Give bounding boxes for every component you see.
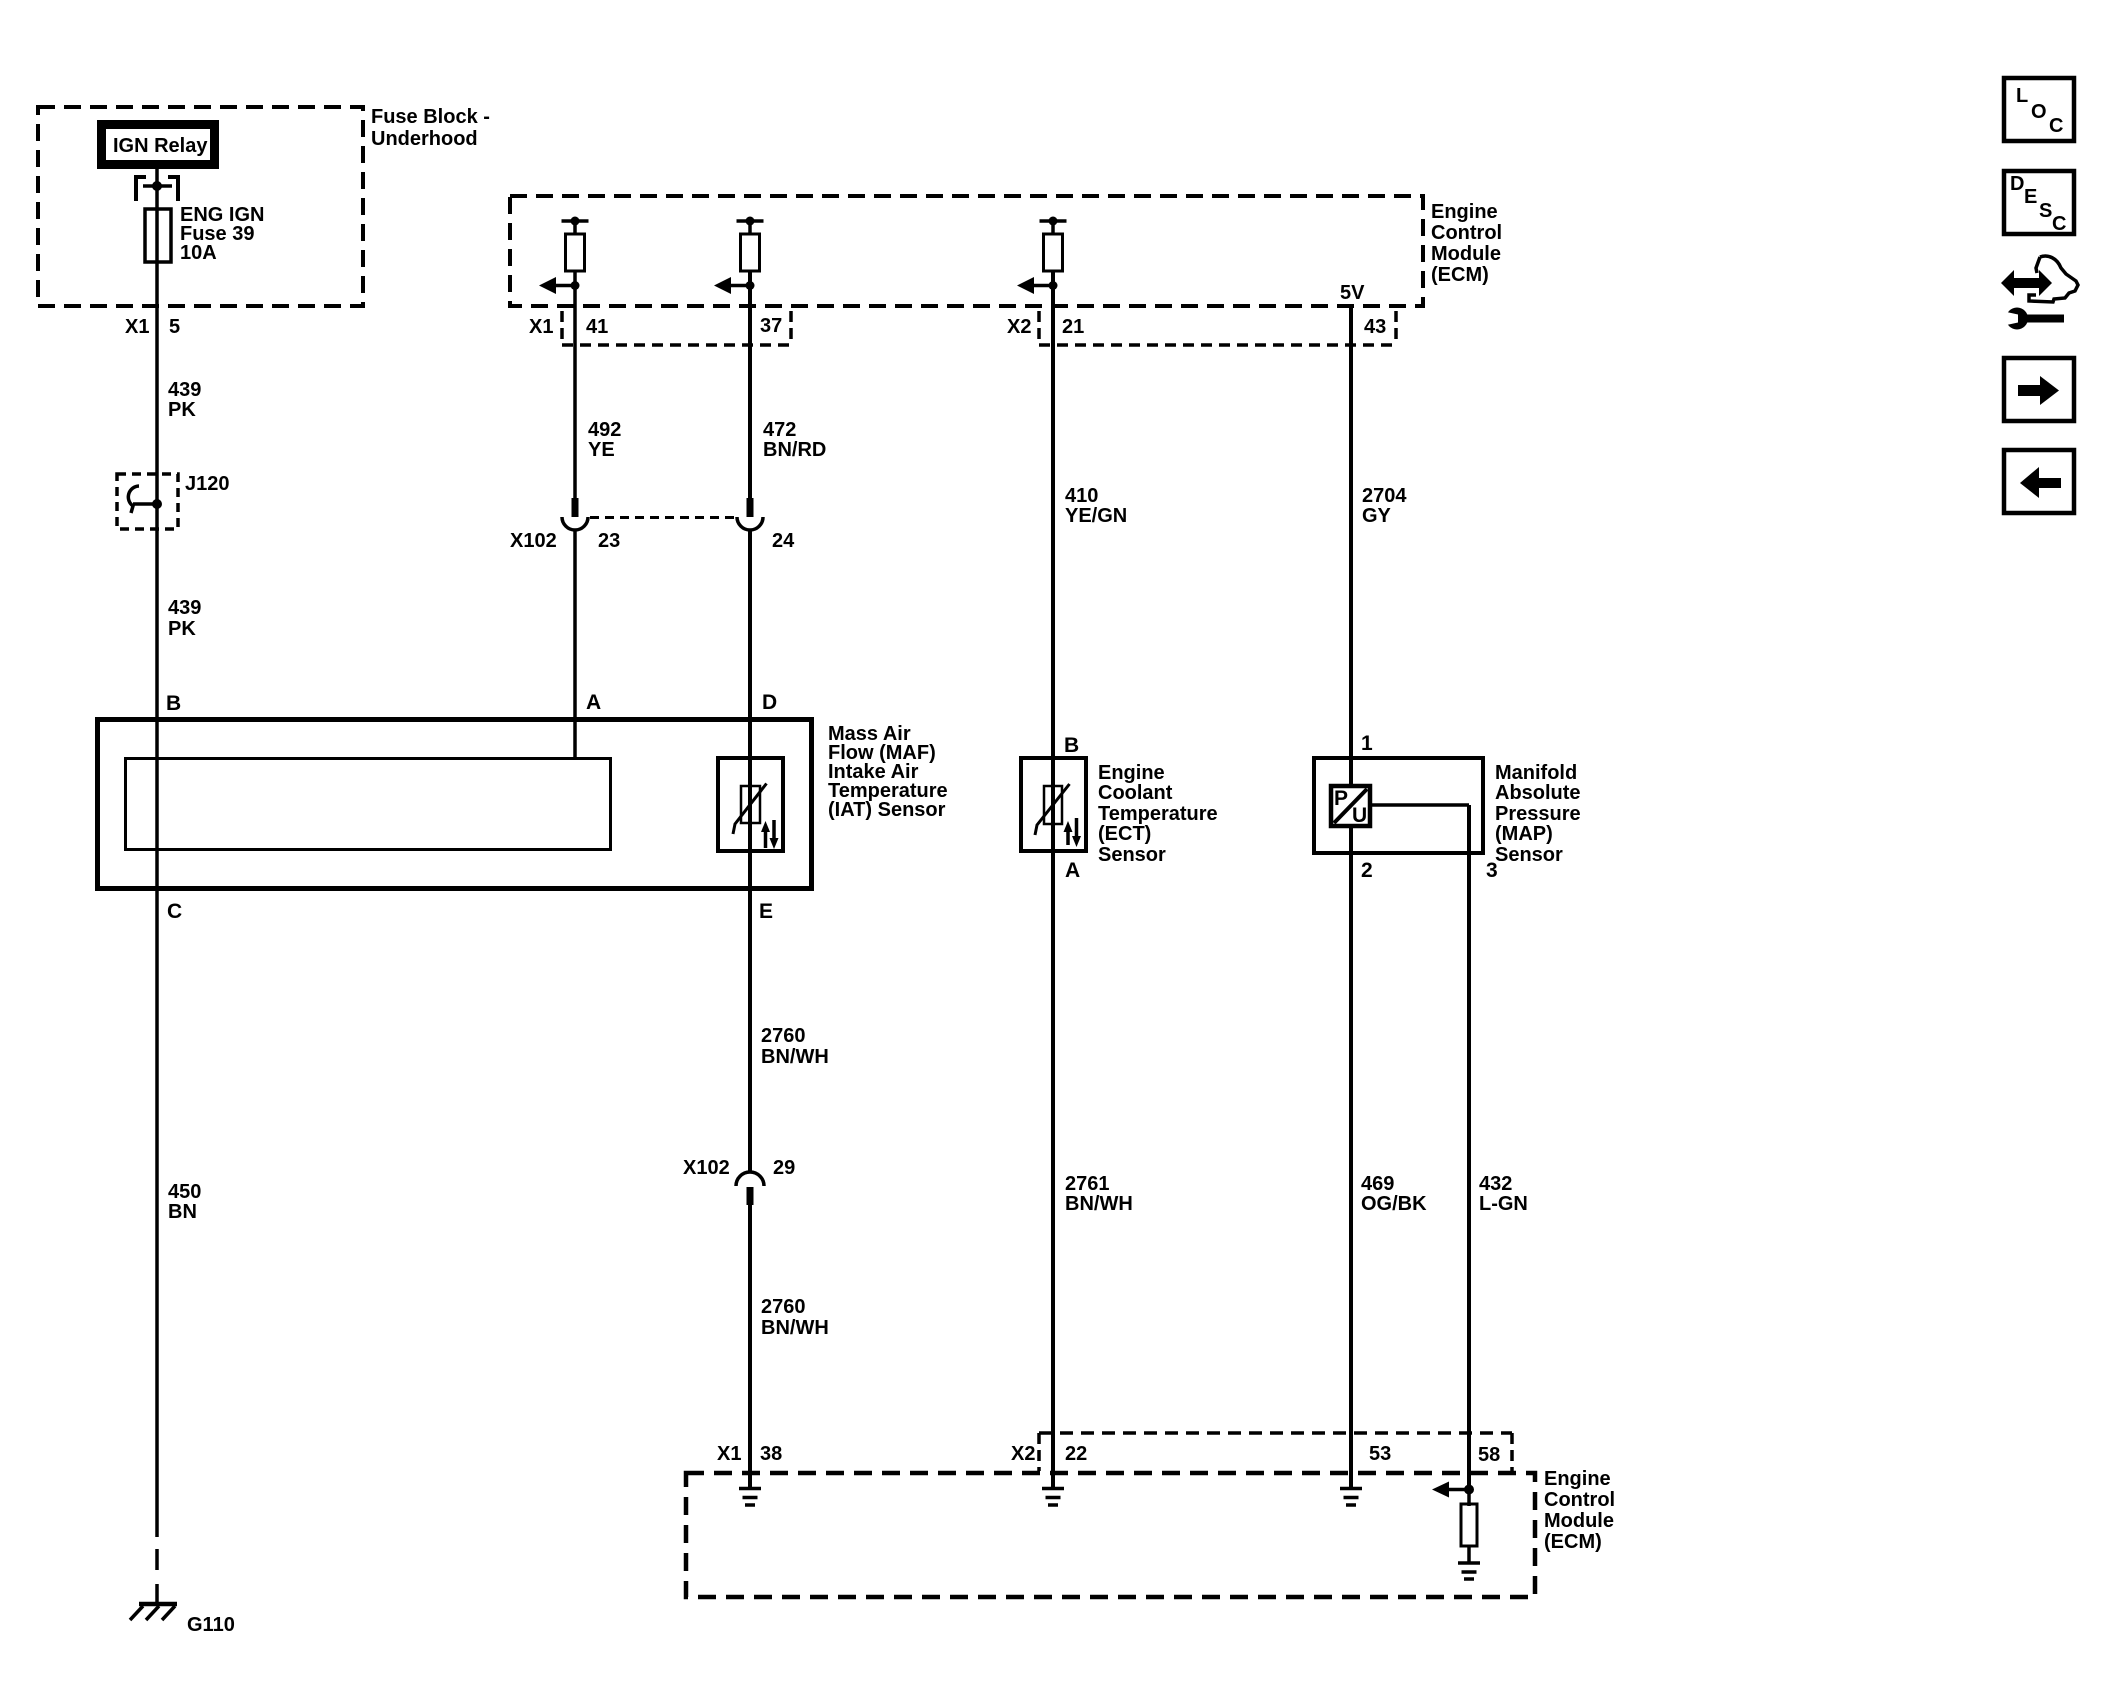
- svg-text:Module: Module: [1431, 243, 1501, 265]
- svg-text:58: 58: [1478, 1444, 1500, 1466]
- svg-text:Control: Control: [1431, 222, 1502, 244]
- svg-text:38: 38: [760, 1443, 782, 1465]
- svg-text:Manifold: Manifold: [1495, 762, 1577, 784]
- svg-text:2704: 2704: [1362, 485, 1407, 507]
- svg-text:2760: 2760: [761, 1025, 806, 1047]
- svg-text:BN/RD: BN/RD: [763, 439, 826, 461]
- svg-text:X1: X1: [529, 316, 553, 338]
- svg-text:C: C: [2052, 213, 2066, 235]
- svg-text:41: 41: [586, 316, 608, 338]
- svg-text:YE/GN: YE/GN: [1065, 505, 1127, 527]
- svg-text:YE: YE: [588, 439, 615, 461]
- svg-text:BN/WH: BN/WH: [761, 1046, 829, 1068]
- svg-text:492: 492: [588, 419, 621, 441]
- svg-text:D: D: [2010, 173, 2024, 195]
- svg-text:BN: BN: [168, 1201, 197, 1223]
- svg-text:2761: 2761: [1065, 1173, 1110, 1195]
- svg-text:439: 439: [168, 379, 201, 401]
- svg-text:P: P: [1334, 787, 1348, 810]
- svg-text:IGN Relay: IGN Relay: [113, 135, 208, 157]
- svg-text:(ECM): (ECM): [1544, 1531, 1602, 1553]
- svg-text:Module: Module: [1544, 1510, 1614, 1532]
- svg-text:C: C: [2049, 115, 2063, 137]
- svg-text:(IAT) Sensor: (IAT) Sensor: [828, 799, 946, 821]
- svg-text:BN/WH: BN/WH: [761, 1317, 829, 1339]
- svg-text:Fuse Block -: Fuse Block -: [371, 106, 490, 128]
- svg-text:X1: X1: [717, 1443, 741, 1465]
- svg-text:Pressure: Pressure: [1495, 803, 1581, 825]
- svg-text:Engine: Engine: [1098, 762, 1165, 784]
- svg-text:Temperature: Temperature: [1098, 803, 1218, 825]
- svg-text:(ECM): (ECM): [1431, 264, 1489, 286]
- svg-text:Engine: Engine: [1544, 1468, 1611, 1490]
- svg-text:PK: PK: [168, 618, 196, 640]
- svg-text:E: E: [2024, 186, 2037, 208]
- svg-text:37: 37: [760, 315, 782, 337]
- svg-text:22: 22: [1065, 1443, 1087, 1465]
- svg-text:X102: X102: [683, 1157, 730, 1179]
- svg-text:469: 469: [1361, 1173, 1394, 1195]
- svg-text:432: 432: [1479, 1173, 1512, 1195]
- svg-text:410: 410: [1065, 485, 1098, 507]
- svg-text:21: 21: [1062, 316, 1084, 338]
- svg-text:450: 450: [168, 1181, 201, 1203]
- svg-text:29: 29: [773, 1157, 795, 1179]
- svg-text:2: 2: [1361, 859, 1373, 882]
- svg-text:Control: Control: [1544, 1489, 1615, 1511]
- svg-text:53: 53: [1369, 1443, 1391, 1465]
- svg-text:(ECT): (ECT): [1098, 823, 1151, 845]
- svg-text:Absolute: Absolute: [1495, 782, 1581, 804]
- svg-text:(MAP): (MAP): [1495, 823, 1553, 845]
- svg-text:X2: X2: [1007, 316, 1031, 338]
- svg-text:23: 23: [598, 530, 620, 552]
- svg-text:C: C: [167, 900, 182, 923]
- svg-text:Sensor: Sensor: [1495, 844, 1563, 866]
- svg-text:U: U: [1352, 804, 1367, 827]
- svg-text:2760: 2760: [761, 1296, 806, 1318]
- svg-text:43: 43: [1364, 316, 1386, 338]
- svg-text:GY: GY: [1362, 505, 1392, 527]
- svg-text:BN/WH: BN/WH: [1065, 1193, 1133, 1215]
- svg-text:S: S: [2039, 200, 2052, 222]
- svg-text:X1: X1: [125, 316, 149, 338]
- svg-text:5V: 5V: [1340, 282, 1365, 304]
- svg-text:A: A: [1065, 859, 1080, 882]
- svg-text:PK: PK: [168, 399, 196, 421]
- svg-text:B: B: [1064, 734, 1079, 757]
- svg-text:24: 24: [772, 530, 795, 552]
- svg-text:G110: G110: [187, 1614, 235, 1636]
- svg-text:Sensor: Sensor: [1098, 844, 1166, 866]
- svg-text:5: 5: [169, 316, 180, 338]
- svg-text:439: 439: [168, 597, 201, 619]
- svg-text:A: A: [586, 691, 601, 714]
- svg-text:X2: X2: [1011, 1443, 1035, 1465]
- svg-text:X102: X102: [510, 530, 557, 552]
- svg-text:E: E: [759, 900, 773, 923]
- svg-text:D: D: [762, 691, 777, 714]
- svg-text:472: 472: [763, 419, 796, 441]
- svg-text:Engine: Engine: [1431, 201, 1498, 223]
- svg-text:OG/BK: OG/BK: [1361, 1193, 1427, 1215]
- svg-text:J120: J120: [185, 473, 230, 495]
- svg-text:L: L: [2016, 85, 2028, 107]
- svg-text:1: 1: [1361, 732, 1373, 755]
- svg-text:B: B: [166, 692, 181, 715]
- svg-text:10A: 10A: [180, 242, 217, 264]
- svg-text:Underhood: Underhood: [371, 128, 478, 150]
- svg-text:L-GN: L-GN: [1479, 1193, 1528, 1215]
- svg-text:O: O: [2031, 101, 2047, 123]
- svg-text:Coolant: Coolant: [1098, 782, 1173, 804]
